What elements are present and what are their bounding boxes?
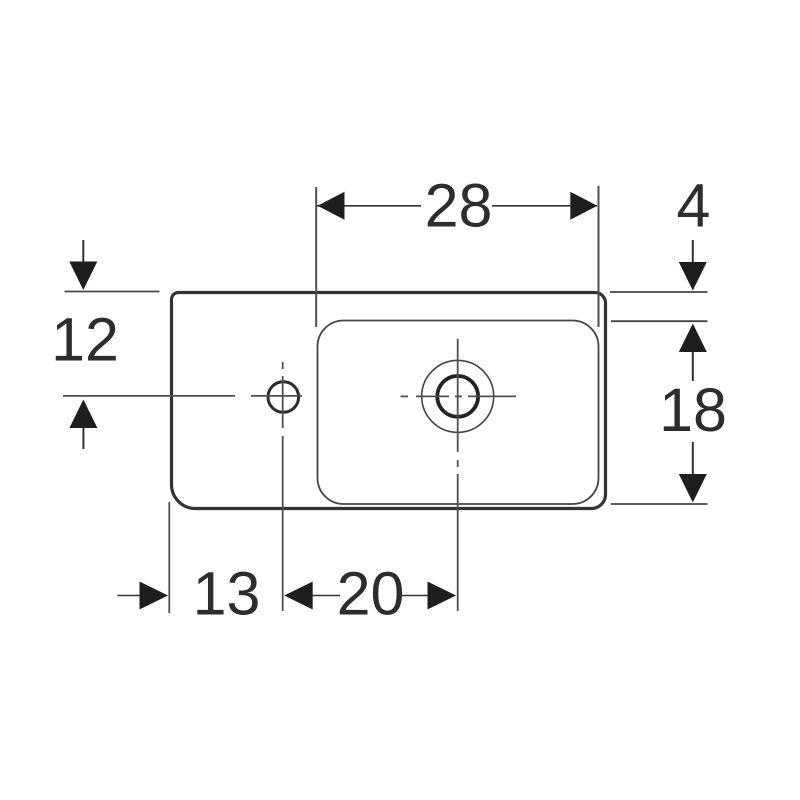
svg-text:28: 28 [425, 172, 493, 240]
svg-text:12: 12 [51, 306, 119, 374]
svg-text:13: 13 [193, 560, 261, 628]
svg-text:18: 18 [659, 376, 727, 444]
svg-text:4: 4 [677, 172, 711, 240]
svg-text:20: 20 [337, 560, 405, 628]
